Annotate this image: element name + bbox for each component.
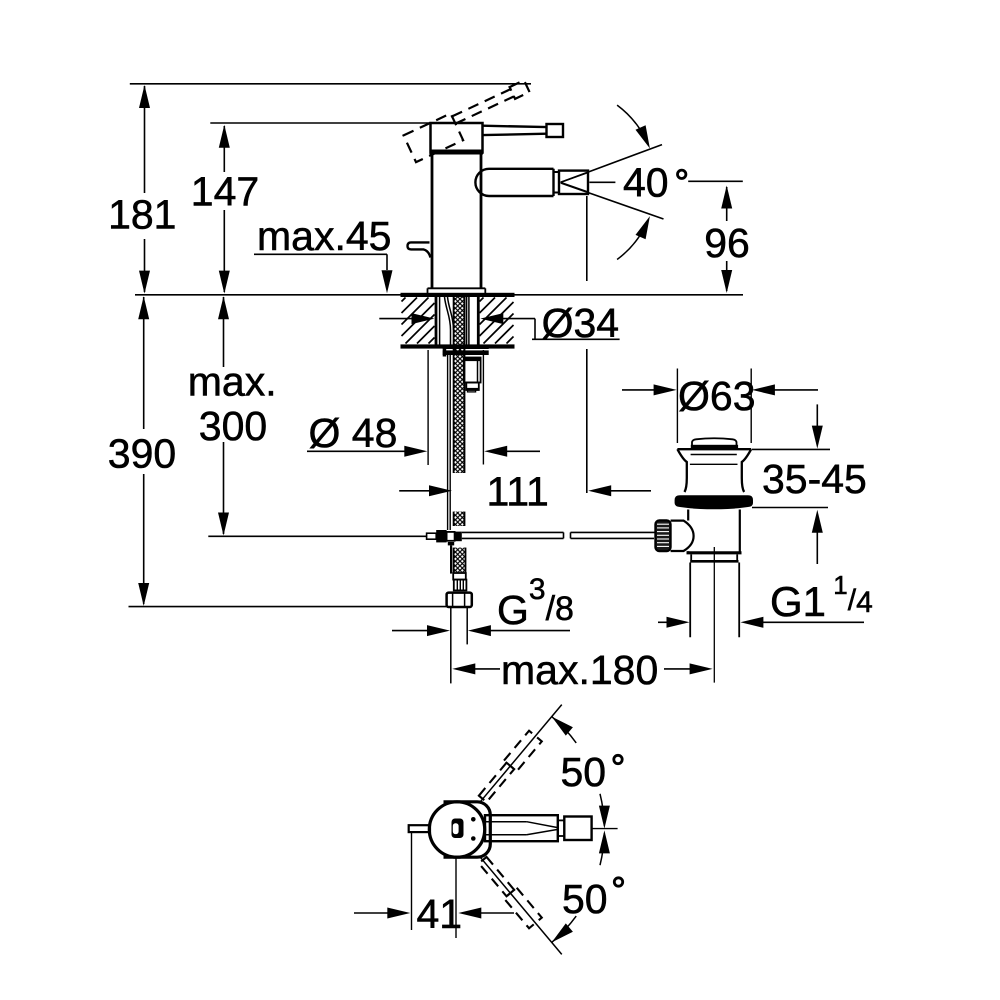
spout neck	[554, 172, 560, 193]
mounting nut	[464, 358, 481, 383]
svg-text:147: 147	[191, 169, 259, 215]
dimension Ø34	[379, 318, 412, 320]
dimension Ø48 extension lines	[427, 350, 429, 465]
spray angle lines (40 deg)	[561, 145, 662, 183]
svg-text:96: 96	[704, 220, 750, 266]
dimension 147	[223, 126, 225, 172]
spray arc arrow bottom	[617, 226, 645, 260]
spout	[475, 169, 553, 196]
reference line (cap top level)	[210, 122, 430, 124]
svg-text:50: 50	[562, 876, 608, 922]
svg-text:max.45: max.45	[257, 213, 391, 259]
pop-up pull rod	[447, 355, 449, 530]
svg-text:181: 181	[108, 192, 176, 238]
50 deg arc lower	[552, 916, 577, 942]
top view: axis line	[592, 828, 618, 830]
dimension max.300	[223, 297, 225, 367]
braided supply hose	[454, 296, 465, 473]
counter hole edges	[435, 297, 437, 344]
svg-text:Ø34: Ø34	[542, 300, 620, 346]
top view: spout	[485, 815, 558, 841]
svg-text:111: 111	[487, 469, 549, 515]
mounting washer	[443, 347, 489, 349]
faucet lever (solid)	[483, 126, 548, 127]
dimension Ø63	[676, 369, 678, 444]
top view: cap outline	[444, 802, 491, 857]
svg-text:35-45: 35-45	[762, 456, 867, 502]
top reference line (handle tip level)	[130, 83, 531, 85]
faucet shank through counter	[435, 296, 438, 347]
pop-up drain valve: push button	[692, 438, 737, 447]
dimension max.180	[452, 663, 475, 674]
faucet cap	[431, 123, 483, 153]
countertop cross-section (hatched)	[401, 293, 515, 297]
top view: screw holes	[471, 817, 476, 822]
dimension 41	[411, 833, 413, 931]
hose end fitting	[453, 573, 466, 580]
supply pipe	[450, 607, 452, 683]
countertop reference line	[135, 294, 743, 296]
dimension 96	[726, 187, 728, 221]
pop-up rod knob	[408, 242, 431, 257]
drain valve flange	[677, 448, 751, 450]
spray arc arrow top	[617, 105, 645, 139]
svg-text:max.: max.	[188, 359, 277, 405]
svg-text:Ø63: Ø63	[678, 373, 756, 419]
faucet lever (dashed, raised position)	[404, 79, 537, 162]
svg-text:40: 40	[623, 160, 669, 206]
faucet base plate	[428, 287, 486, 289]
top view: aerator	[564, 817, 591, 841]
knurled adjuster knob	[655, 520, 670, 551]
top view: lever raised 50 deg up (dashed)	[474, 699, 568, 807]
faucet body	[431, 153, 434, 290]
svg-text:41: 41	[417, 891, 463, 937]
svg-text:max.180: max.180	[501, 647, 658, 693]
top view: lever tab	[409, 825, 430, 832]
trigger housing	[671, 521, 694, 551]
spray impact extension line	[586, 196, 588, 281]
G3/8 connection nut	[447, 593, 472, 607]
aerator	[559, 171, 588, 194]
dimension G1 1/4	[658, 621, 667, 623]
drain valve body	[687, 510, 689, 521]
valve collar	[690, 554, 692, 560]
top view: cartridge (D shape)	[452, 819, 464, 839]
50 deg arc upper	[552, 717, 577, 743]
dimension 181	[144, 86, 146, 193]
svg-text:50: 50	[561, 749, 607, 795]
dimension 390	[143, 297, 145, 429]
dimension 35-45	[752, 448, 830, 450]
label 40 deg	[589, 181, 615, 183]
top view: lever 50 deg down (dashed)	[474, 852, 568, 960]
drain valve seal ring	[675, 495, 753, 509]
svg-text:390: 390	[108, 431, 176, 477]
dimension 111	[399, 490, 430, 492]
svg-text:300: 300	[199, 403, 267, 449]
svg-text:Ø 48: Ø 48	[309, 410, 398, 456]
dimension G3/8	[392, 630, 428, 632]
drain linkage rod	[208, 535, 426, 537]
drain tailpiece (G1 1/4)	[689, 563, 691, 638]
rod coupling	[427, 533, 437, 539]
tailpiece center line	[713, 547, 715, 683]
top view: faucet body circle	[429, 802, 484, 857]
